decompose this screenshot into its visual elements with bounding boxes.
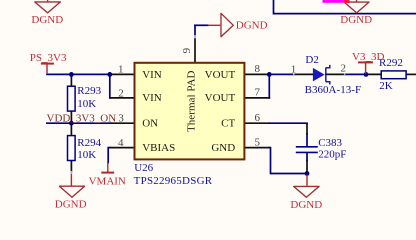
svg-text:CT: CT xyxy=(221,118,235,130)
svg-text:10K: 10K xyxy=(77,98,96,110)
svg-text:C383: C383 xyxy=(318,137,342,149)
svg-text:Thermal PAD: Thermal PAD xyxy=(186,70,198,132)
svg-text:7: 7 xyxy=(255,87,261,99)
svg-text:B360A-13-F: B360A-13-F xyxy=(305,84,362,96)
svg-text:VOUT: VOUT xyxy=(205,92,236,104)
svg-text:4: 4 xyxy=(118,137,124,149)
svg-text:DGND: DGND xyxy=(31,14,63,26)
svg-text:VOUT: VOUT xyxy=(205,69,236,81)
svg-text:2: 2 xyxy=(118,88,124,100)
svg-text:220pF: 220pF xyxy=(318,148,346,160)
svg-text:DGND: DGND xyxy=(290,199,322,211)
svg-text:9: 9 xyxy=(181,47,193,53)
svg-text:2K: 2K xyxy=(379,80,393,92)
svg-text:GND: GND xyxy=(211,142,235,154)
svg-text:3: 3 xyxy=(118,113,124,125)
svg-text:1: 1 xyxy=(118,64,124,76)
svg-text:R293: R293 xyxy=(77,85,101,97)
svg-text:VDD_3V3_ON: VDD_3V3_ON xyxy=(47,113,117,125)
svg-text:D2: D2 xyxy=(305,54,318,66)
svg-text:DGND: DGND xyxy=(55,198,87,210)
svg-text:V3_3D: V3_3D xyxy=(352,51,384,63)
svg-text:DGND: DGND xyxy=(340,14,372,26)
svg-text:VIN: VIN xyxy=(142,69,162,81)
svg-text:R294: R294 xyxy=(77,137,101,149)
svg-text:TPS22965DSGR: TPS22965DSGR xyxy=(134,175,213,187)
svg-text:1: 1 xyxy=(291,64,297,76)
svg-text:U26: U26 xyxy=(134,162,153,174)
svg-text:8: 8 xyxy=(255,63,261,75)
svg-text:5: 5 xyxy=(254,137,260,149)
svg-text:PS_3V3: PS_3V3 xyxy=(30,52,67,64)
svg-text:VBIAS: VBIAS xyxy=(142,142,175,154)
svg-text:ON: ON xyxy=(142,118,158,130)
svg-text:10K: 10K xyxy=(77,149,96,161)
svg-text:VIN: VIN xyxy=(142,92,162,104)
svg-text:DGND: DGND xyxy=(236,20,268,32)
svg-text:6: 6 xyxy=(254,112,260,124)
svg-text:VMAIN: VMAIN xyxy=(89,175,126,187)
svg-text:2: 2 xyxy=(340,63,346,75)
